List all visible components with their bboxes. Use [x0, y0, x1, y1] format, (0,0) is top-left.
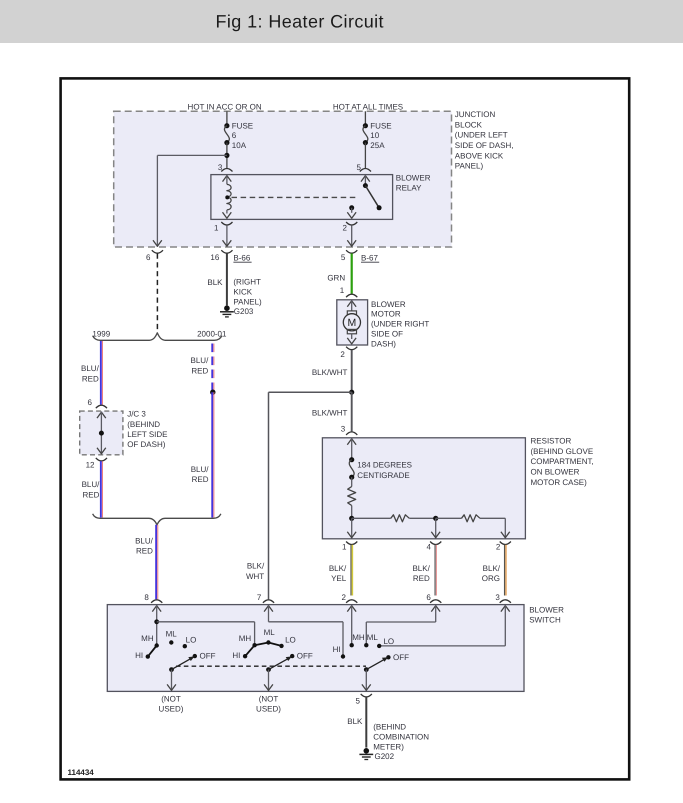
- svg-text:GRN: GRN: [327, 273, 345, 282]
- svg-text:2000-01: 2000-01: [197, 330, 227, 339]
- svg-text:6: 6: [426, 593, 431, 602]
- wire left branch to pin 6: [157, 154, 227, 156]
- junction connector J/C 3 box: [80, 411, 123, 455]
- svg-text:7: 7: [257, 593, 262, 602]
- wire BLK/ORG: [504, 545, 506, 596]
- svg-text:B-66: B-66: [233, 253, 250, 262]
- svg-text:5: 5: [341, 253, 346, 262]
- node BLK/WHT junction: [349, 390, 354, 395]
- node fuse6 junction: [224, 153, 229, 158]
- svg-text:RESISTOR: RESISTOR: [531, 436, 572, 445]
- resistor element horizontal 1: [391, 515, 410, 522]
- wire BLK/YEL: [350, 545, 352, 596]
- svg-text:(BEHIND GLOVE: (BEHIND GLOVE: [531, 447, 594, 456]
- wire BLK to G203: [226, 254, 228, 306]
- svg-text:HOT AT ALL TIMES: HOT AT ALL TIMES: [333, 102, 403, 111]
- wire dashed to split: [156, 254, 158, 333]
- switch group 2 wiper: [266, 667, 271, 672]
- svg-text:10: 10: [370, 131, 379, 140]
- svg-text:OFF: OFF: [393, 653, 409, 662]
- svg-text:MH: MH: [352, 633, 365, 642]
- wire BLU/RED 1999 branch: [100, 341, 102, 405]
- arrow pin6 exit: [153, 240, 162, 246]
- svg-text:12: 12: [86, 461, 95, 470]
- svg-text:BLOWER: BLOWER: [396, 174, 431, 183]
- svg-text:BLOCK: BLOCK: [455, 120, 483, 129]
- svg-text:3: 3: [495, 593, 500, 602]
- svg-text:MOTOR CASE): MOTOR CASE): [531, 478, 588, 487]
- svg-text:HI: HI: [333, 645, 341, 654]
- svg-text:BLK: BLK: [207, 278, 223, 287]
- merge brace: [93, 514, 221, 525]
- svg-text:METER): METER): [373, 743, 404, 752]
- relay contact: [361, 176, 370, 182]
- svg-text:SIDE OF: SIDE OF: [371, 330, 403, 339]
- switch pin2 feed to MH3: [351, 605, 353, 645]
- connector 6: [152, 250, 163, 253]
- svg-text:1: 1: [214, 223, 219, 232]
- svg-text:184 DEGREES: 184 DEGREES: [357, 461, 412, 470]
- svg-text:LO: LO: [383, 637, 394, 646]
- wire BLK/WHT motor to node: [351, 350, 353, 392]
- svg-text:OFF: OFF: [200, 652, 216, 661]
- wire BLK/WHT to resistor: [351, 392, 353, 431]
- svg-text:BLK: BLK: [347, 717, 363, 726]
- ground G202: [364, 748, 370, 754]
- svg-text:USED): USED): [256, 704, 281, 713]
- svg-text:RED: RED: [413, 574, 430, 583]
- wire branch to switch pin 7: [269, 391, 352, 393]
- split brace 1999/2000-01: [93, 333, 222, 341]
- svg-text:MH: MH: [141, 634, 154, 643]
- svg-text:HOT IN ACC OR ON: HOT IN ACC OR ON: [188, 102, 262, 111]
- blower motor box: [337, 300, 368, 345]
- svg-text:2: 2: [496, 543, 501, 552]
- svg-text:COMBINATION: COMBINATION: [373, 733, 429, 742]
- switch pin7 feed to HI3: [268, 605, 270, 622]
- wire fuse 6 feed: [226, 111, 228, 125]
- svg-text:8: 8: [144, 593, 149, 602]
- svg-text:LO: LO: [186, 635, 197, 644]
- connector 4: [430, 542, 441, 545]
- svg-text:RED: RED: [191, 367, 208, 376]
- svg-text:M: M: [348, 317, 357, 329]
- svg-text:3: 3: [341, 425, 346, 434]
- switch gang dashed linkage: [176, 665, 366, 667]
- blower switch box: [107, 605, 524, 692]
- svg-text:(UNDER LEFT: (UNDER LEFT: [455, 131, 508, 140]
- svg-text:(NOT: (NOT: [161, 695, 181, 704]
- svg-text:LEFT SIDE: LEFT SIDE: [127, 430, 167, 439]
- svg-text:6: 6: [88, 398, 93, 407]
- svg-text:(NOT: (NOT: [259, 695, 279, 704]
- svg-text:J/C 3: J/C 3: [127, 410, 146, 419]
- svg-text:25A: 25A: [370, 141, 385, 150]
- svg-text:(UNDER RIGHT: (UNDER RIGHT: [371, 320, 429, 329]
- svg-text:RED: RED: [192, 475, 209, 484]
- svg-text:2: 2: [343, 223, 348, 232]
- svg-text:16: 16: [210, 253, 219, 262]
- svg-text:PANEL): PANEL): [233, 298, 262, 307]
- node resistor tap 2: [433, 516, 438, 521]
- svg-text:1: 1: [340, 286, 345, 295]
- svg-text:BLOWER: BLOWER: [371, 300, 406, 309]
- svg-text:BLK/WHT: BLK/WHT: [312, 408, 348, 417]
- svg-text:PANEL): PANEL): [455, 162, 484, 171]
- svg-text:BLK/: BLK/: [412, 564, 430, 573]
- svg-text:OFF: OFF: [297, 652, 313, 661]
- resistor pin 2 exit: [501, 532, 510, 538]
- svg-text:SIDE OF DASH,: SIDE OF DASH,: [455, 141, 514, 150]
- svg-text:6: 6: [232, 131, 237, 140]
- svg-text:2: 2: [340, 350, 345, 359]
- node resistor tap 1: [349, 516, 354, 521]
- J/C3 entry arrow: [97, 412, 106, 418]
- connector 5 B-67: [346, 250, 357, 253]
- thermal fuse 184 degrees: [349, 457, 354, 462]
- resistor element horizontal 2: [462, 515, 481, 522]
- relay coil entry arrow: [223, 176, 232, 182]
- switch group 2 contacts: [252, 643, 256, 647]
- svg-text:5: 5: [355, 696, 360, 705]
- switch pin 5 connector: [361, 694, 372, 697]
- header bar: [0, 0, 683, 43]
- svg-text:G203: G203: [234, 307, 254, 316]
- svg-text:JUNCTION: JUNCTION: [455, 110, 496, 119]
- outer frame: [61, 78, 630, 779]
- svg-text:BLOWER: BLOWER: [529, 606, 564, 615]
- relay output exit arrow: [347, 212, 356, 218]
- motor exit arrow: [347, 338, 356, 344]
- switch group 3 contacts: [350, 643, 354, 647]
- fuse F10 25A: [363, 123, 368, 128]
- svg-text:G202: G202: [375, 752, 395, 761]
- svg-text:BLU/: BLU/: [191, 465, 210, 474]
- svg-text:(BEHIND: (BEHIND: [127, 420, 160, 429]
- svg-text:1999: 1999: [92, 330, 110, 339]
- svg-text:BLK/: BLK/: [483, 564, 501, 573]
- wire to resistor element: [351, 477, 353, 486]
- switch group1 feed: [156, 605, 158, 646]
- blower relay box: [211, 175, 393, 220]
- svg-text:6: 6: [146, 253, 151, 262]
- svg-text:USED): USED): [159, 704, 184, 713]
- relay actuator dashed line: [232, 196, 357, 198]
- switch group 1 contacts: [155, 643, 159, 647]
- svg-text:MOTOR: MOTOR: [371, 310, 401, 319]
- svg-text:114434: 114434: [68, 768, 95, 777]
- svg-text:CENTIGRADE: CENTIGRADE: [357, 471, 409, 480]
- switch group 3 wiper: [364, 667, 369, 672]
- svg-text:ML: ML: [367, 633, 379, 642]
- svg-text:Fig 1: Heater Circuit: Fig 1: Heater Circuit: [216, 12, 384, 32]
- wire BLU/RED 2000-01 solid: [211, 392, 213, 517]
- wire GRN: [351, 254, 353, 294]
- resistor pin 4 exit: [435, 518, 437, 538]
- pin 12 J/C3 connector: [96, 458, 107, 461]
- wire fuse 10 feed: [364, 111, 366, 125]
- relay coil: [226, 175, 228, 184]
- switch pin3 feed to LO3: [504, 605, 506, 646]
- svg-text:HI: HI: [135, 651, 143, 660]
- svg-text:HI: HI: [232, 651, 240, 660]
- svg-text:RELAY: RELAY: [396, 184, 422, 193]
- wire tap row: [352, 517, 391, 519]
- ground G203: [224, 305, 230, 311]
- wire fuse10 to pin5: [364, 143, 366, 168]
- resistor pin 1 exit: [351, 518, 353, 538]
- svg-text:BLU/: BLU/: [135, 536, 154, 545]
- svg-text:1: 1: [342, 543, 347, 552]
- wire BLU/RED below J/C3: [100, 461, 102, 517]
- pin 2 blower motor: [346, 347, 357, 350]
- svg-text:BLK/: BLK/: [329, 564, 347, 573]
- svg-text:FUSE: FUSE: [370, 122, 391, 131]
- svg-text:COMPARTMENT,: COMPARTMENT,: [531, 457, 594, 466]
- svg-text:BLU/: BLU/: [81, 364, 100, 373]
- svg-text:WHT: WHT: [246, 572, 264, 581]
- relay coil exit arrow: [223, 212, 232, 218]
- svg-text:4: 4: [426, 543, 431, 552]
- wire BLK/RED: [434, 545, 436, 596]
- node J/C3: [99, 431, 104, 436]
- connector 1: [346, 542, 357, 545]
- svg-text:LO: LO: [285, 635, 296, 644]
- junction block (dashed box): [114, 111, 452, 247]
- node 2000-01 wire: [210, 390, 215, 395]
- resistor entry arrow: [347, 439, 356, 445]
- svg-text:10A: 10A: [232, 141, 247, 150]
- svg-text:SWITCH: SWITCH: [529, 616, 561, 625]
- svg-text:FUSE: FUSE: [232, 122, 253, 131]
- svg-text:(BEHIND: (BEHIND: [373, 723, 406, 732]
- svg-text:(RIGHT: (RIGHT: [233, 277, 261, 286]
- svg-text:BLU/: BLU/: [82, 480, 101, 489]
- svg-text:ON BLOWER: ON BLOWER: [531, 468, 580, 477]
- svg-text:ML: ML: [166, 629, 178, 638]
- wire fuse6 to pin3: [226, 143, 228, 168]
- svg-text:B-67: B-67: [361, 253, 378, 262]
- svg-text:YEL: YEL: [331, 574, 347, 583]
- node relay coil tap: [225, 195, 229, 199]
- svg-text:2: 2: [341, 593, 346, 602]
- resistor element R vertical: [348, 487, 356, 506]
- svg-text:RED: RED: [83, 490, 100, 499]
- svg-text:RED: RED: [136, 547, 153, 556]
- fuse F6 10A: [224, 123, 229, 128]
- resistor box: [322, 438, 525, 539]
- svg-text:KICK: KICK: [233, 287, 252, 296]
- wire BLU/RED 2000-01 dashed branch: [211, 344, 213, 393]
- svg-text:ML: ML: [264, 628, 276, 637]
- svg-text:ORG: ORG: [482, 574, 500, 583]
- svg-text:OF DASH): OF DASH): [127, 440, 166, 449]
- connector 2: [500, 542, 511, 545]
- svg-text:BLK/: BLK/: [247, 562, 265, 571]
- wire BLK to G202: [365, 697, 367, 747]
- connector 16 B-66: [221, 250, 232, 253]
- svg-text:RED: RED: [82, 374, 99, 383]
- motor M symbol: [347, 311, 356, 315]
- J/C3 exit arrow: [97, 448, 106, 454]
- wire BLU/RED to switch pin 8: [155, 525, 157, 600]
- switch group 1 wiper: [169, 667, 174, 672]
- svg-text:MH: MH: [239, 634, 252, 643]
- svg-text:BLU/: BLU/: [191, 356, 210, 365]
- svg-text:ABOVE KICK: ABOVE KICK: [455, 151, 504, 160]
- svg-text:DASH): DASH): [371, 339, 396, 348]
- motor entry arrow: [347, 301, 356, 307]
- switch pin6 feed to ML3: [435, 605, 437, 622]
- svg-text:BLK/WHT: BLK/WHT: [312, 368, 348, 377]
- switch entry arrows: [152, 606, 161, 612]
